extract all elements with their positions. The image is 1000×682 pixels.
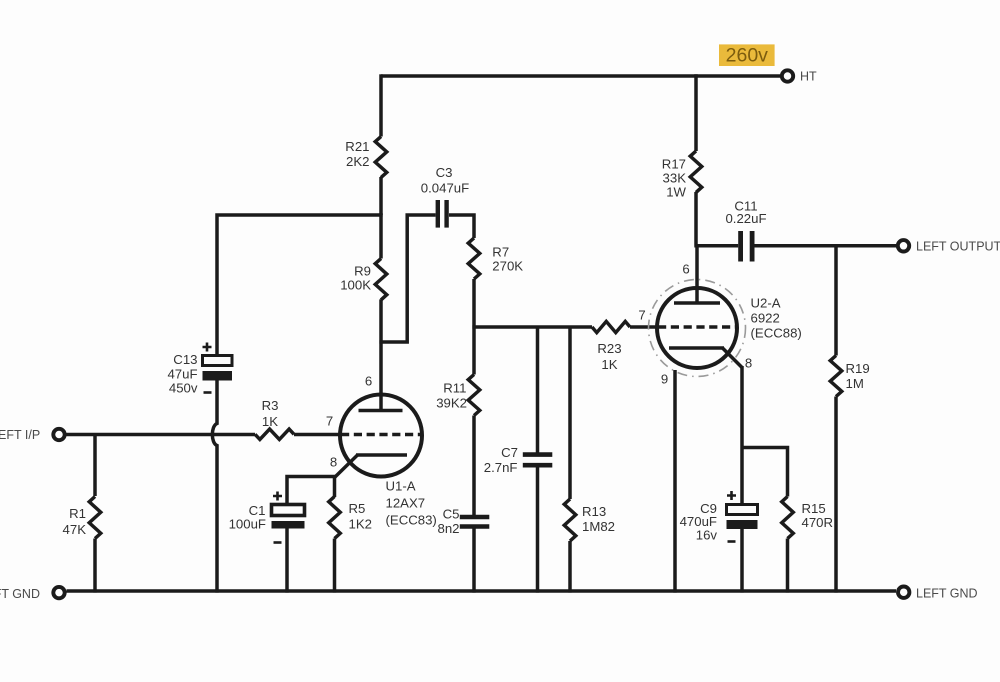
- svg-text:260v: 260v: [726, 45, 769, 67]
- svg-text:1M: 1M: [846, 376, 864, 391]
- capacitor C9: [727, 505, 758, 515]
- svg-text:39K2: 39K2: [436, 396, 467, 411]
- U2 pin 9 lead to ground: [673, 370, 677, 593]
- svg-text:8n2: 8n2: [437, 521, 459, 536]
- wire R5 to ground: [333, 539, 337, 593]
- wire C13 to ground with hop over input wire: [212, 381, 217, 593]
- svg-text:1K2: 1K2: [349, 517, 372, 532]
- wire R17 to C11 and U2 anode: [694, 192, 738, 246]
- wire input to R3: [67, 433, 256, 437]
- terminal LEFT OUTPUT: [898, 240, 909, 251]
- resistor R5: [329, 497, 341, 539]
- resistor R13: [564, 499, 576, 541]
- svg-text:2.7nF: 2.7nF: [484, 460, 518, 475]
- wire R9 to U1 anode pin 6: [379, 299, 383, 410]
- svg-text:47K: 47K: [63, 522, 87, 537]
- capacitor C13: [203, 356, 233, 366]
- svg-text:LEFT GND: LEFT GND: [0, 587, 40, 601]
- U2 cathode pin 8 diagonal: [723, 348, 743, 368]
- terminal LEFT GND right: [898, 587, 909, 598]
- wire R19 to ground: [834, 397, 838, 593]
- svg-text:12AX7: 12AX7: [386, 496, 426, 511]
- svg-text:100uF: 100uF: [229, 516, 266, 531]
- svg-text:R15: R15: [802, 501, 826, 516]
- svg-text:R3: R3: [262, 398, 279, 413]
- wire R11 top lead: [472, 327, 476, 375]
- svg-text:470R: 470R: [802, 515, 834, 530]
- wire anode stub to C3 loop: [379, 215, 435, 342]
- terminal HT: [782, 70, 793, 81]
- wire R15 to ground: [786, 539, 790, 593]
- wire cathode branch to R15: [742, 448, 788, 497]
- C9 minus mark: [728, 540, 736, 543]
- svg-text:HT: HT: [800, 69, 817, 83]
- svg-text:R11: R11: [443, 381, 466, 396]
- U2 cathode bar: [669, 346, 724, 350]
- C13 minus mark: [204, 391, 212, 394]
- svg-text:270K: 270K: [492, 259, 523, 274]
- svg-text:0.047uF: 0.047uF: [421, 181, 469, 196]
- resistor R23: [592, 321, 630, 332]
- wire C3 right to R7: [449, 215, 474, 238]
- terminal LEFT I/P: [53, 429, 64, 440]
- wire R23 to U2 grid pin 7: [630, 325, 659, 329]
- svg-text:2K2: 2K2: [346, 154, 369, 169]
- svg-text:R1: R1: [69, 506, 86, 521]
- wire C9 to ground: [740, 529, 744, 593]
- wire R1 tap: [93, 435, 97, 497]
- wire R13 top lead: [568, 327, 572, 499]
- svg-text:U2-A: U2-A: [751, 296, 781, 311]
- wire R5 top lead: [333, 477, 337, 498]
- svg-text:8: 8: [330, 455, 337, 470]
- svg-text:C3: C3: [436, 165, 453, 180]
- wire R19 tap from output: [834, 246, 838, 356]
- U2 anode pin 6 lead: [695, 246, 699, 303]
- svg-text:U1-A: U1-A: [386, 479, 416, 494]
- svg-text:LEFT GND: LEFT GND: [916, 587, 978, 601]
- C1 minus mark: [274, 541, 282, 544]
- svg-text:(ECC88): (ECC88): [751, 326, 802, 341]
- svg-text:47uF: 47uF: [167, 367, 197, 382]
- svg-text:450v: 450v: [169, 381, 198, 396]
- wire R21 to R9 junction: [379, 177, 383, 215]
- resistor R21: [375, 137, 387, 178]
- svg-text:16v: 16v: [696, 528, 718, 543]
- C13 plus mark: [203, 343, 212, 352]
- resistor R11: [468, 375, 480, 416]
- svg-text:7: 7: [326, 414, 333, 429]
- wire R1 to ground: [93, 539, 97, 593]
- wire R17 tap from top rail: [694, 74, 698, 151]
- svg-text:6922: 6922: [751, 311, 780, 326]
- capacitor C5: [460, 515, 490, 520]
- svg-text:R17: R17: [662, 157, 686, 172]
- wire R11 to C5: [472, 416, 476, 518]
- svg-text:7: 7: [638, 308, 645, 323]
- svg-text:C7: C7: [501, 445, 518, 460]
- wire C1 to ground: [285, 529, 289, 593]
- svg-text:R13: R13: [582, 504, 606, 519]
- wire decoupling branch to C13: [217, 215, 383, 356]
- svg-text:100K: 100K: [340, 278, 371, 293]
- C9 plus mark: [727, 491, 736, 500]
- U1 anode plate bar: [359, 409, 403, 413]
- resistor R7: [468, 238, 480, 279]
- wire grid junction to R23: [472, 325, 592, 329]
- svg-text:R19: R19: [846, 361, 870, 376]
- resistor R15: [782, 497, 794, 539]
- U1 cathode pin 8 diagonal: [335, 455, 358, 478]
- U1 cathode bar: [356, 453, 407, 457]
- wire C7 to ground: [536, 465, 540, 592]
- resistor R3: [255, 429, 294, 439]
- terminal LEFT GND left: [53, 587, 64, 598]
- node 260v supply label: [719, 44, 775, 66]
- svg-text:C13: C13: [173, 352, 197, 367]
- wire HT top rail: [381, 74, 780, 78]
- svg-text:(ECC83): (ECC83): [386, 513, 437, 528]
- wire R21 top lead: [379, 74, 383, 136]
- svg-text:R21: R21: [345, 139, 369, 154]
- svg-text:R5: R5: [349, 501, 366, 516]
- tube U2-A envelope dash-dot: [649, 280, 746, 377]
- ground bus: [67, 589, 897, 593]
- tube U1-A body: [340, 395, 422, 477]
- wire R7 to grid junction: [472, 279, 476, 327]
- svg-text:1W: 1W: [666, 185, 686, 200]
- U2 anode plate bar: [674, 301, 720, 305]
- capacitor C3: [436, 200, 440, 228]
- svg-text:C5: C5: [443, 507, 460, 522]
- resistor R9: [375, 259, 387, 300]
- wire R13 to ground: [568, 541, 572, 593]
- wire C11 to LEFT OUTPUT: [755, 244, 897, 248]
- U2 grid dashed: [658, 325, 737, 329]
- wire U1 cathode junction to C1: [287, 477, 336, 505]
- svg-text:0.22uF: 0.22uF: [725, 211, 766, 226]
- svg-text:33K: 33K: [663, 171, 687, 186]
- U1 grid dashed: [341, 433, 422, 437]
- resistor R17: [690, 151, 702, 192]
- svg-text:R9: R9: [354, 264, 371, 279]
- C1 plus mark: [273, 492, 282, 501]
- svg-text:9: 9: [661, 372, 668, 387]
- svg-text:LEFT I/P: LEFT I/P: [0, 428, 40, 442]
- resistor R19: [830, 356, 842, 397]
- svg-text:1M82: 1M82: [582, 519, 615, 534]
- svg-text:R7: R7: [492, 244, 509, 259]
- wire R9 top lead: [379, 213, 383, 258]
- capacitor C11: [738, 231, 743, 262]
- svg-text:1K: 1K: [601, 357, 617, 372]
- wire C7 top lead: [536, 327, 540, 455]
- svg-text:R23: R23: [597, 341, 621, 356]
- svg-text:8: 8: [745, 356, 752, 371]
- wire C5 to ground: [472, 527, 476, 593]
- svg-text:6: 6: [365, 374, 372, 389]
- svg-text:6: 6: [682, 262, 689, 277]
- U1 anode lead inside: [379, 394, 383, 411]
- svg-text:1K: 1K: [262, 414, 278, 429]
- svg-text:LEFT OUTPUT: LEFT OUTPUT: [916, 239, 1000, 253]
- resistor R1: [89, 497, 101, 539]
- wire R3 to U1 grid pin 7: [294, 433, 342, 437]
- wire U2 cathode to C9: [740, 366, 744, 505]
- capacitor C7: [523, 452, 553, 457]
- tube U2-A body: [657, 288, 737, 368]
- capacitor C1: [272, 505, 305, 516]
